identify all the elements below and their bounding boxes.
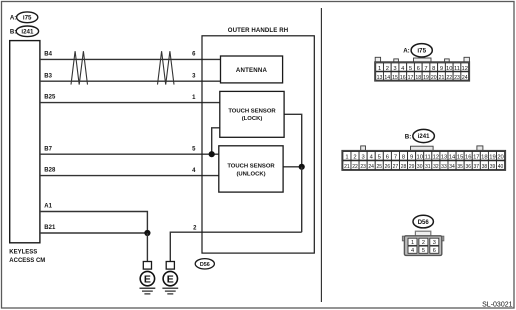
svg-text:i75: i75 <box>417 48 426 55</box>
wire B3 to pin 3 <box>41 80 221 82</box>
outer handle RH enclosure <box>202 27 314 253</box>
svg-text:36: 36 <box>465 164 471 170</box>
svg-text:25: 25 <box>376 164 382 170</box>
svg-text:27: 27 <box>393 164 399 170</box>
svg-text:B25: B25 <box>44 95 56 101</box>
svg-text:15: 15 <box>392 75 398 81</box>
svg-text:30: 30 <box>417 164 423 170</box>
connector view A: i75 <box>375 44 470 82</box>
wire B28 to pin 4 <box>41 175 219 177</box>
svg-text:19: 19 <box>423 75 429 81</box>
svg-text:24: 24 <box>462 75 468 81</box>
wire to ground E1 <box>146 233 148 262</box>
svg-text:37: 37 <box>474 164 480 170</box>
svg-text:SL-03021: SL-03021 <box>482 301 512 308</box>
svg-text:OUTER HANDLE RH: OUTER HANDLE RH <box>228 27 288 34</box>
svg-text:35: 35 <box>457 164 463 170</box>
connector view D56 <box>402 215 443 255</box>
antenna unit <box>221 56 283 83</box>
svg-text:1: 1 <box>411 240 414 246</box>
svg-text:B21: B21 <box>44 225 56 231</box>
svg-text:22: 22 <box>446 75 452 81</box>
svg-text:18: 18 <box>481 155 487 161</box>
svg-text:A:: A: <box>403 48 410 55</box>
svg-text:23: 23 <box>360 164 366 170</box>
connector label D56 (diagram) <box>195 259 214 269</box>
keyless access CM unit box <box>9 41 45 264</box>
svg-text:20: 20 <box>497 155 503 161</box>
svg-text:6: 6 <box>386 155 389 161</box>
svg-text:11: 11 <box>425 155 431 161</box>
svg-text:D56: D56 <box>418 220 430 226</box>
svg-text:22: 22 <box>352 164 358 170</box>
wire pin 2 to ground E2 <box>170 232 301 261</box>
svg-text:B28: B28 <box>44 168 56 174</box>
svg-text:34: 34 <box>449 164 455 170</box>
wire lock sensor branch (pin 5 node to lock input) <box>212 128 220 154</box>
wire lock sensor output <box>284 114 302 167</box>
junction node pin5 branch <box>209 151 215 157</box>
svg-text:17: 17 <box>408 75 414 81</box>
svg-text:39: 39 <box>490 164 496 170</box>
svg-text:E: E <box>167 273 174 285</box>
svg-text:2: 2 <box>422 240 425 246</box>
svg-text:6: 6 <box>433 248 436 254</box>
svg-text:5: 5 <box>422 248 425 254</box>
svg-text:1: 1 <box>345 155 348 161</box>
svg-text:1: 1 <box>378 66 381 72</box>
svg-text:40: 40 <box>498 164 504 170</box>
svg-text:12: 12 <box>462 66 468 72</box>
wire B7 to pin 5 <box>41 153 219 155</box>
svg-text:TOUCH SENSOR: TOUCH SENSOR <box>227 164 275 170</box>
wire B21 <box>41 232 148 234</box>
svg-text:11: 11 <box>454 66 460 72</box>
svg-text:E: E <box>144 273 151 285</box>
svg-text:ANTENNA: ANTENNA <box>236 67 268 74</box>
svg-text:15: 15 <box>457 155 463 161</box>
svg-text:16: 16 <box>465 155 471 161</box>
svg-text:B7: B7 <box>44 146 52 152</box>
twisted pair symbol 1 (B4/B3) <box>71 51 88 84</box>
svg-text:i241: i241 <box>418 134 430 140</box>
svg-text:21: 21 <box>439 75 445 81</box>
svg-text:16: 16 <box>400 75 406 81</box>
svg-text:2: 2 <box>386 66 389 72</box>
svg-text:13: 13 <box>441 155 447 161</box>
svg-text:4: 4 <box>411 248 414 254</box>
svg-text:20: 20 <box>431 75 437 81</box>
wire unlock sensor output <box>283 166 302 168</box>
svg-text:B:: B: <box>10 28 16 35</box>
svg-text:i241: i241 <box>21 28 34 35</box>
svg-text:21: 21 <box>344 164 350 170</box>
touch sensor unlock unit <box>219 146 283 192</box>
svg-text:i75: i75 <box>23 15 32 22</box>
connector view B: i241 <box>342 129 506 170</box>
svg-text:B4: B4 <box>44 52 52 58</box>
ground E1 <box>140 262 156 294</box>
svg-text:32: 32 <box>433 164 439 170</box>
svg-text:24: 24 <box>368 164 374 170</box>
svg-text:12: 12 <box>433 155 439 161</box>
svg-text:10: 10 <box>416 155 422 161</box>
svg-text:TOUCH SENSOR: TOUCH SENSOR <box>228 108 276 114</box>
svg-text:19: 19 <box>489 155 495 161</box>
svg-text:A1: A1 <box>44 204 52 210</box>
svg-text:38: 38 <box>482 164 488 170</box>
svg-text:A:: A: <box>10 14 16 21</box>
svg-text:17: 17 <box>473 155 479 161</box>
svg-text:8: 8 <box>402 155 405 161</box>
svg-text:7: 7 <box>424 66 427 72</box>
svg-text:3: 3 <box>361 155 364 161</box>
svg-text:B:: B: <box>405 133 412 140</box>
svg-text:18: 18 <box>415 75 421 81</box>
panel divider <box>320 8 322 302</box>
svg-text:8: 8 <box>432 66 435 72</box>
ground E2 <box>162 262 178 294</box>
junction node A1/B21 <box>144 230 150 236</box>
twisted pair symbol 2 (B4/B3) <box>158 51 175 84</box>
svg-text:33: 33 <box>441 164 447 170</box>
svg-text:31: 31 <box>425 164 431 170</box>
touch sensor lock unit <box>220 91 284 137</box>
svg-text:28: 28 <box>401 164 407 170</box>
svg-text:23: 23 <box>454 75 460 81</box>
svg-text:14: 14 <box>384 75 390 81</box>
connector label A: i75 <box>10 12 38 23</box>
svg-text:KEYLESS: KEYLESS <box>9 250 37 256</box>
wire B25 to pin 1 <box>41 102 220 104</box>
wire B4 to pin 6 <box>41 58 221 60</box>
svg-text:B3: B3 <box>44 73 52 79</box>
svg-text:7: 7 <box>394 155 397 161</box>
svg-text:3: 3 <box>393 66 396 72</box>
svg-text:2: 2 <box>353 155 356 161</box>
svg-text:3: 3 <box>433 240 436 246</box>
svg-text:ACCESS CM: ACCESS CM <box>9 258 45 264</box>
svg-text:9: 9 <box>410 155 413 161</box>
junction node sensor outputs <box>299 164 305 170</box>
svg-text:29: 29 <box>409 164 415 170</box>
connector label B: i241 <box>10 26 39 37</box>
wire A1 <box>41 212 148 234</box>
svg-text:10: 10 <box>446 66 452 72</box>
svg-text:(LOCK): (LOCK) <box>242 116 263 122</box>
wire common return to pin 2 <box>301 167 303 232</box>
svg-text:(UNLOCK): (UNLOCK) <box>236 171 265 177</box>
svg-text:6: 6 <box>417 66 420 72</box>
svg-text:5: 5 <box>409 66 412 72</box>
svg-text:13: 13 <box>377 75 383 81</box>
svg-text:D56: D56 <box>200 262 210 268</box>
svg-text:5: 5 <box>378 155 381 161</box>
svg-text:9: 9 <box>440 66 443 72</box>
svg-text:14: 14 <box>449 155 456 161</box>
svg-text:26: 26 <box>385 164 391 170</box>
